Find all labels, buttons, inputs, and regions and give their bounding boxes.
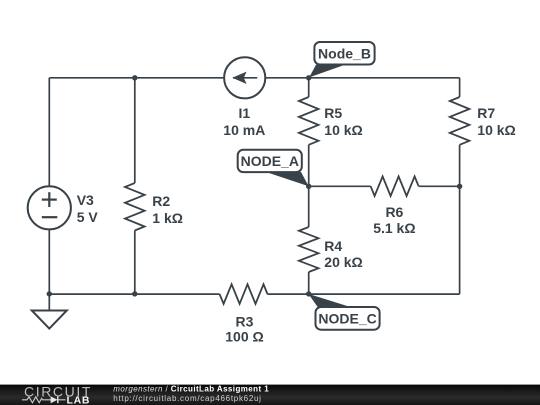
svg-text:morgenstern / CircuitLab Assig: morgenstern / CircuitLab Assigment 1 (113, 384, 269, 393)
junction dot node B (306, 75, 311, 80)
wire R2 branch lower (134, 231, 136, 295)
wire left rail lower (V3 bottom down to bottom rail) (48, 229, 50, 294)
resistor R7 (450, 97, 470, 145)
current source I1 arrow (233, 72, 257, 83)
svg-text:I1: I1 (238, 105, 250, 121)
svg-text:R4: R4 (324, 238, 342, 254)
footer bar (0, 385, 540, 405)
resistor R3 (220, 284, 268, 304)
junction dot node A (306, 184, 311, 189)
node Node_B box (314, 42, 374, 65)
current source I1 circle (224, 57, 265, 98)
wire R6 right to right rail (419, 185, 460, 187)
wire bottom rail left (ground node to R3 left) (49, 293, 219, 295)
node NODE_A box (238, 150, 302, 172)
wire bottom rail right (R3 right to right corner) (268, 293, 460, 295)
svg-text:R3: R3 (236, 314, 254, 330)
resistor R5 (299, 97, 319, 145)
wire right rail upper stub (top corner to R7 top) (459, 78, 461, 97)
svg-text:NODE_C: NODE_C (318, 311, 376, 327)
svg-text:1 kΩ: 1 kΩ (152, 210, 183, 226)
svg-text:10 kΩ: 10 kΩ (324, 122, 362, 138)
svg-text:http://circuitlab.com/cap466tp: http://circuitlab.com/cap466tpk62uj (113, 394, 261, 403)
svg-text:R6: R6 (385, 204, 403, 220)
wire right rail lower (R7 bottom to bottom corner) (459, 145, 461, 294)
svg-text:10 mA: 10 mA (223, 122, 265, 138)
resistor R6 (371, 176, 419, 196)
svg-text:20 kΩ: 20 kΩ (324, 254, 362, 270)
wire R5 branch upper stub (Node_B to R5 top) (308, 78, 310, 97)
logo diode symbol (51, 396, 58, 403)
svg-text:5.1 kΩ: 5.1 kΩ (373, 220, 415, 236)
wire R2 branch upper (134, 78, 136, 183)
wire top rail right (I1 right terminal to right corner) (265, 77, 459, 79)
svg-text:R5: R5 (324, 105, 342, 121)
junction dot at R2 top (132, 75, 137, 80)
voltage source V3 plus sign (42, 192, 57, 207)
wire left rail upper (top corner down to V3 top) (48, 78, 50, 186)
logo waveform resistor zigzag (22, 397, 51, 403)
wire R4 bottom to NODE_C (308, 272, 310, 294)
junction dot R6 right rail (457, 184, 462, 189)
wire ground stub (48, 294, 50, 310)
wire NODE_A to R6 left (309, 185, 371, 187)
node NODE_C box (316, 307, 380, 330)
wire R5 bottom to NODE_A (308, 145, 310, 187)
node NODE_C pointer (308, 294, 352, 308)
junction dot ground node (47, 291, 52, 296)
wire NODE_A to R4 top (308, 186, 310, 227)
voltage source V3 minus sign (42, 216, 58, 218)
svg-text:R7: R7 (477, 105, 495, 121)
ground symbol (32, 311, 67, 329)
junction dot node C (306, 291, 311, 296)
svg-text:100 Ω: 100 Ω (225, 329, 263, 345)
junction dot R2 bottom (132, 291, 137, 296)
svg-text:NODE_A: NODE_A (241, 153, 299, 169)
resistor R2 (125, 183, 145, 231)
svg-text:10 kΩ: 10 kΩ (477, 122, 515, 138)
wire top rail left (V3 corner to I1 left terminal) (49, 77, 224, 79)
svg-text:R2: R2 (152, 193, 170, 209)
svg-text:Node_B: Node_B (318, 45, 371, 61)
svg-text:5 V: 5 V (77, 209, 99, 225)
resistor R4 (299, 227, 319, 272)
node NODE_A pointer (266, 172, 309, 186)
svg-text:LAB: LAB (67, 394, 91, 405)
node Node_B pointer (309, 65, 345, 78)
voltage source V3 circle (28, 186, 71, 229)
svg-text:V3: V3 (77, 192, 94, 208)
